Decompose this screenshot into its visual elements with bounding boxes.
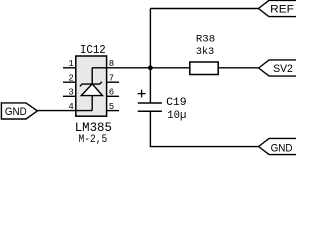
wire GND flag to pin 4 (37, 110, 63, 112)
svg-text:R38: R38 (196, 34, 215, 46)
pin 5 (107, 110, 119, 112)
wire vertical from REF corner down to capacitor (149, 9, 151, 104)
svg-text:GND: GND (271, 143, 293, 155)
IC U body IC12 (76, 56, 107, 116)
svg-text:2: 2 (68, 74, 73, 84)
svg-text:5: 5 (109, 102, 114, 112)
pin 2 (63, 81, 76, 83)
wire capacitor to bottom GND flag (150, 111, 258, 146)
wire pin 8 net to resistor (107, 67, 190, 69)
flag SV2 (259, 60, 298, 76)
pin 3 (63, 95, 76, 97)
svg-text:10µ: 10µ (167, 110, 186, 122)
svg-text:7: 7 (109, 74, 114, 84)
zener diode symbol inside IC12 (80, 68, 103, 111)
flag GND bottom right (259, 138, 298, 154)
svg-text:IC12: IC12 (80, 43, 106, 57)
flag REF (258, 0, 298, 16)
svg-text:LM385: LM385 (75, 120, 112, 135)
svg-text:REF: REF (270, 4, 294, 16)
svg-text:GND: GND (5, 106, 27, 118)
pin 7 (107, 81, 119, 83)
flag GND left (1, 103, 37, 119)
pin 4 (63, 110, 92, 112)
svg-text:4: 4 (68, 102, 73, 112)
pin 8 (92, 67, 106, 69)
svg-text:C19: C19 (166, 97, 187, 109)
pin 1 (63, 67, 76, 69)
svg-text:SV2: SV2 (273, 63, 293, 75)
svg-text:1: 1 (68, 59, 73, 69)
polarity + sign (138, 90, 146, 98)
svg-text:3k3: 3k3 (196, 46, 214, 58)
svg-text:6: 6 (109, 88, 114, 98)
wire resistor to SV2 flag (218, 67, 258, 69)
wire top to REF flag (150, 8, 258, 10)
svg-text:M-2,5: M-2,5 (79, 134, 108, 146)
capacitor C19 plates (138, 103, 162, 111)
svg-text:3: 3 (68, 88, 73, 98)
resistor R38 (190, 62, 218, 75)
junction dot (148, 65, 153, 70)
pin 6 (107, 95, 119, 97)
